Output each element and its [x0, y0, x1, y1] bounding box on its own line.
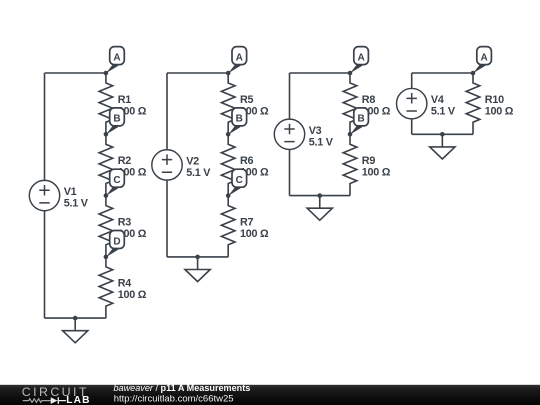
wire left upper c2 — [166, 73, 168, 150]
svg-text:A: A — [236, 52, 243, 63]
svg-text:R9: R9 — [362, 155, 376, 167]
resistor R4 — [99, 257, 113, 318]
voltage source V4 — [396, 88, 426, 118]
node A c3 — [348, 47, 369, 76]
node A c1 — [104, 47, 125, 76]
node D c1 — [104, 231, 125, 260]
logo diode — [51, 397, 58, 404]
ground c2 — [185, 257, 210, 282]
ground c3 — [307, 196, 332, 221]
wire top rail c2 — [167, 72, 228, 74]
node A c4 — [471, 47, 492, 76]
wire left lower c1 — [44, 211, 46, 318]
svg-text:V1: V1 — [64, 186, 77, 198]
svg-text:baweaver / p11 A Measurements: baweaver / p11 A Measurements — [114, 383, 251, 393]
node B c1 — [104, 108, 125, 137]
resistor R8 — [343, 73, 357, 134]
wire left lower c2 — [166, 180, 168, 257]
resistor R3 — [99, 196, 113, 257]
resistor R5 — [221, 73, 235, 134]
svg-text:B: B — [357, 114, 364, 125]
svg-text:C: C — [236, 175, 243, 186]
svg-text:5.1 V: 5.1 V — [431, 106, 456, 118]
wire top rail c3 — [290, 72, 351, 74]
junction c3 — [317, 193, 322, 198]
junction c4 — [440, 132, 445, 137]
wire top rail c1 — [45, 72, 106, 74]
wire left upper c1 — [44, 73, 46, 180]
resistor R1 — [99, 73, 113, 134]
node C c2 — [226, 169, 247, 198]
svg-text:A: A — [357, 52, 364, 63]
wire left upper c3 — [289, 73, 291, 119]
svg-text:C: C — [113, 175, 120, 186]
svg-text:B: B — [113, 114, 120, 125]
svg-text:100 Ω: 100 Ω — [118, 289, 147, 301]
svg-text:100 Ω: 100 Ω — [362, 167, 391, 179]
svg-text:LAB: LAB — [66, 395, 91, 405]
node B c3 — [348, 108, 369, 137]
resistor R6 — [221, 134, 235, 195]
resistor R7 — [221, 196, 235, 257]
node A c2 — [226, 47, 247, 76]
svg-text:100 Ω: 100 Ω — [240, 228, 269, 240]
svg-text:V4: V4 — [431, 94, 444, 106]
voltage source V2 — [152, 150, 182, 180]
svg-text:B: B — [236, 114, 243, 125]
svg-text:5.1 V: 5.1 V — [186, 167, 211, 179]
voltage source V1 — [29, 180, 59, 210]
svg-text:A: A — [480, 52, 487, 63]
ground c1 — [63, 318, 88, 343]
svg-text:R2: R2 — [118, 155, 132, 167]
svg-text:R8: R8 — [362, 94, 376, 106]
junction c2 — [195, 255, 200, 260]
svg-text:R10: R10 — [485, 94, 504, 106]
wire left lower c3 — [289, 150, 291, 196]
logo waveform wire — [23, 399, 51, 403]
svg-text:100 Ω: 100 Ω — [485, 105, 514, 117]
wire bottom rail c4 — [412, 133, 473, 135]
resistor R9 — [343, 134, 357, 195]
svg-text:V2: V2 — [186, 155, 199, 167]
node C c1 — [104, 169, 125, 198]
svg-text:5.1 V: 5.1 V — [64, 198, 89, 210]
wire left upper c4 — [411, 73, 413, 88]
node B c2 — [226, 108, 247, 137]
voltage source V3 — [274, 119, 304, 149]
wire top rail c4 — [412, 72, 473, 74]
svg-text:D: D — [113, 236, 120, 247]
svg-text:5.1 V: 5.1 V — [309, 136, 334, 148]
wire bottom rail c3 — [290, 195, 351, 197]
svg-text:R6: R6 — [240, 155, 254, 167]
junction c1 — [73, 316, 78, 321]
svg-text:R5: R5 — [240, 94, 254, 106]
ground c4 — [430, 134, 455, 159]
resistor R10 — [466, 73, 480, 134]
svg-text:R7: R7 — [240, 216, 254, 228]
wire left lower c4 — [411, 119, 413, 134]
wire bottom rail c1 — [45, 317, 106, 319]
wire bottom rail c2 — [167, 256, 228, 258]
svg-text:R3: R3 — [118, 216, 132, 228]
svg-text:V3: V3 — [309, 125, 322, 137]
svg-text:R1: R1 — [118, 94, 132, 106]
footer bar — [0, 385, 540, 405]
svg-text:http://circuitlab.com/c66tw25: http://circuitlab.com/c66tw25 — [114, 394, 234, 405]
svg-text:R4: R4 — [118, 278, 132, 290]
resistor R2 — [99, 134, 113, 195]
svg-text:A: A — [113, 52, 120, 63]
